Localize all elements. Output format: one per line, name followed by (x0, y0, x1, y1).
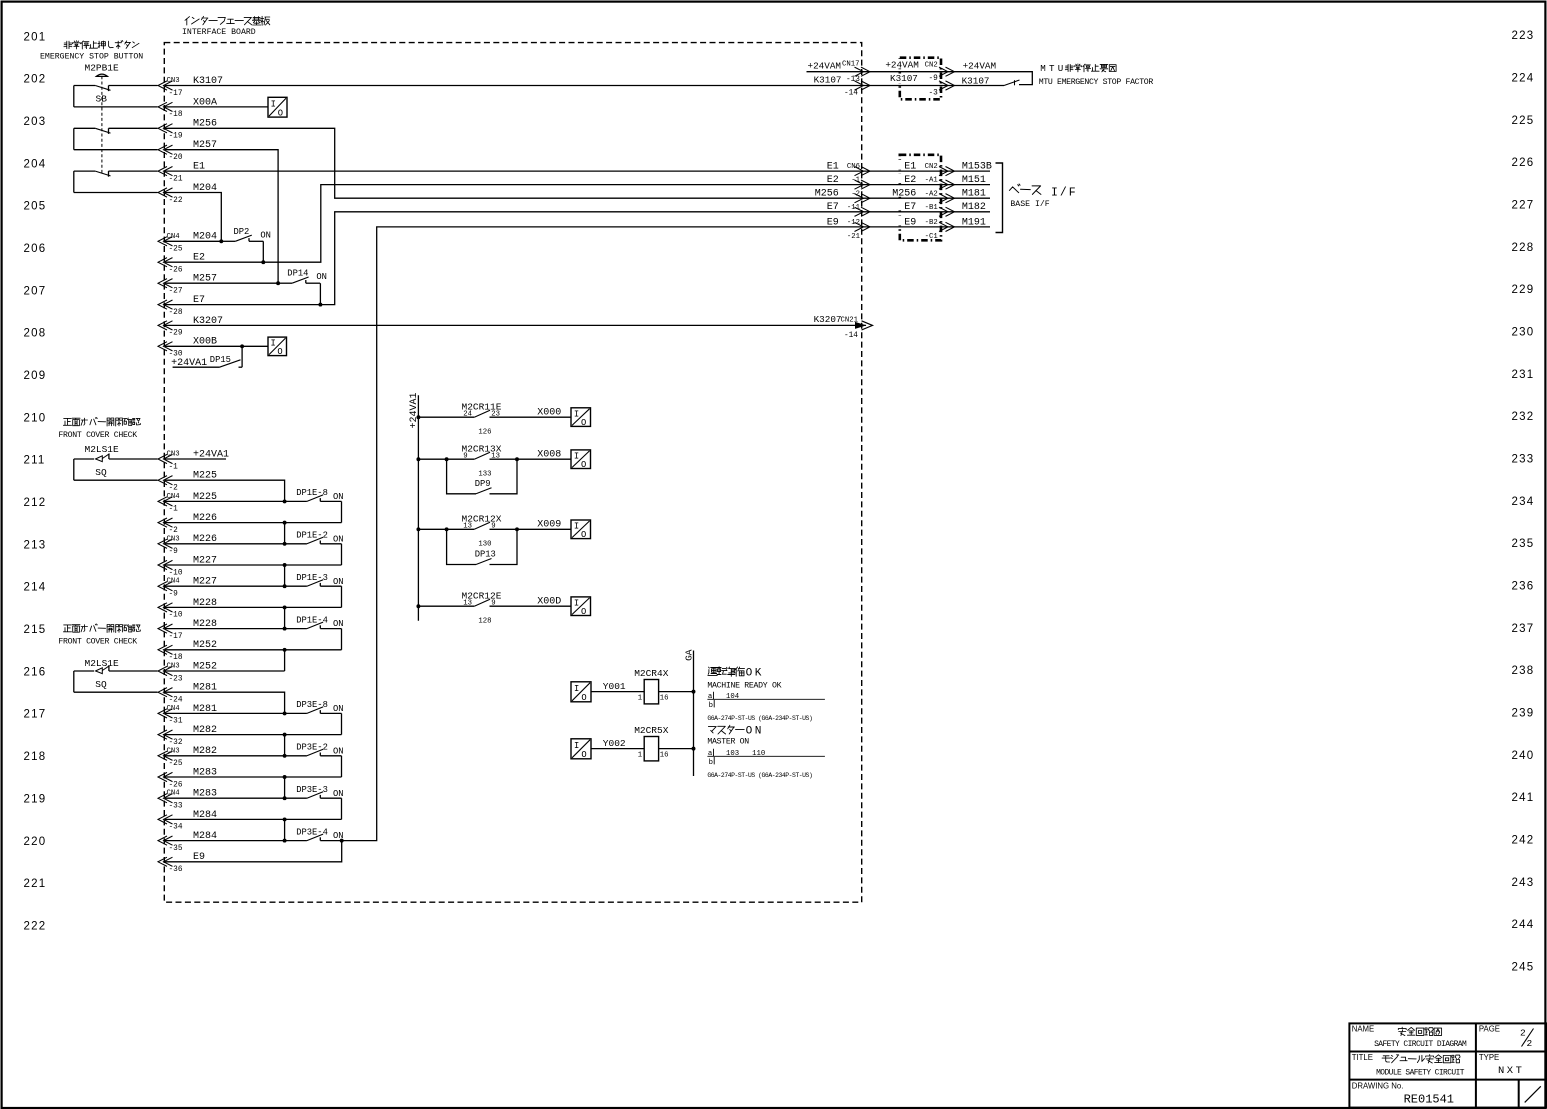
CN21 output arrow (855, 322, 867, 329)
wire through CN2 box E9 (866, 226, 990, 228)
svg-text:-10: -10 (169, 569, 183, 577)
label backplate (883, 59, 920, 69)
CN2 chevron K3107 out (939, 81, 955, 90)
connector CN3 pin -20 chevron (M257) (158, 145, 173, 154)
svg-text:-2: -2 (169, 527, 179, 535)
GA vertical rail (693, 651, 695, 777)
connector pin -23 chevron (M252) (158, 666, 173, 675)
wire M226 (165, 522, 342, 524)
svg-text:K: K (755, 667, 762, 679)
svg-text:+24VA1: +24VA1 (409, 392, 420, 428)
connector CN2 (top) dash-dot box (900, 58, 941, 100)
wire K3107 (row 202) full width (165, 85, 1004, 87)
svg-text:E2: E2 (827, 175, 839, 186)
svg-text:K3207: K3207 (814, 314, 842, 325)
connector pin -9 chevron (M227) (158, 582, 173, 591)
connector pin -1 chevron (+24VA1) (158, 454, 173, 463)
wire M227 (165, 564, 342, 566)
svg-text:218: 218 (24, 751, 47, 763)
svg-text:233: 233 (1512, 454, 1535, 466)
wire M252 CN3-23 (165, 670, 285, 672)
I/O box Y002 (571, 739, 591, 759)
junction M204/DP2 (219, 239, 223, 243)
wire X00A to I/O (165, 106, 268, 108)
svg-text:O: O (581, 530, 586, 540)
junction M257/DP14 (276, 281, 280, 285)
wire M282 (165, 734, 342, 736)
svg-text:-9: -9 (928, 75, 938, 83)
CN17 chevron K3107 (855, 81, 871, 90)
svg-text:-18: -18 (169, 654, 183, 662)
svg-text:-21: -21 (169, 175, 183, 183)
wire +24VAM through CN2 to MTU box (866, 72, 1032, 85)
connector pin -24 chevron (M281) (158, 688, 173, 697)
svg-text:I: I (271, 99, 276, 109)
svg-text:MODULE SAFETY CIRCUIT: MODULE SAFETY CIRCUIT (1376, 1068, 1465, 1077)
svg-text:2: 2 (1527, 1038, 1533, 1049)
svg-text:231: 231 (1512, 369, 1535, 381)
svg-text:203: 203 (24, 116, 47, 128)
svg-text:-9: -9 (169, 548, 179, 556)
svg-text:+24VAM: +24VAM (885, 60, 918, 71)
right margin line-number column 223-245 (1512, 30, 1535, 974)
svg-text:226: 226 (1512, 157, 1535, 169)
connector pin -1 chevron (M225) (158, 497, 173, 506)
relay contact M2CR12E (416, 604, 420, 608)
label backplate (890, 160, 918, 170)
svg-text:-10: -10 (169, 612, 183, 620)
svg-text:DP3E-3: DP3E-3 (296, 785, 328, 795)
junction M283 (283, 796, 287, 800)
svg-text:239: 239 (1512, 708, 1535, 720)
svg-text:ON: ON (333, 789, 344, 799)
junction M225 (283, 499, 287, 503)
svg-text:M2CR5X: M2CR5X (634, 725, 669, 736)
svg-text:NXT: NXT (1498, 1065, 1524, 1077)
svg-text:ON: ON (333, 704, 344, 714)
I/O box X00B (268, 337, 287, 356)
svg-text:+24VAM: +24VAM (808, 60, 841, 71)
wire M204: right then down to CN4 row (165, 193, 221, 242)
connector pin -35 chevron (M284) (158, 836, 173, 845)
I/O box X009 (571, 520, 591, 539)
junction M281 (283, 711, 287, 715)
svg-text:-1: -1 (169, 463, 179, 471)
relay contact M2CR13X (416, 457, 420, 461)
svg-text:CN3: CN3 (167, 451, 180, 459)
svg-text:-14: -14 (844, 332, 858, 340)
wire M226 with switch DP1E-2 (165, 543, 285, 545)
svg-text:CN2: CN2 (925, 62, 938, 70)
emergency stop SB NC contact 2 (73, 128, 75, 149)
label backplate (890, 201, 918, 211)
svg-text:9: 9 (491, 523, 495, 531)
svg-text:128: 128 (478, 618, 491, 626)
wire through CN2 box M256 (866, 197, 990, 199)
svg-text:-20: -20 (169, 154, 183, 162)
switch output drop to M228 (341, 586, 343, 607)
svg-text:-24: -24 (169, 697, 183, 705)
svg-text:ON: ON (316, 272, 327, 282)
front cover check label (Japanese) (63, 418, 71, 425)
connector CN4 pin -25 chevron (M204) (158, 237, 173, 246)
svg-text:-C1: -C1 (925, 233, 939, 241)
svg-text:-17: -17 (169, 90, 183, 98)
relay coil M2CR4X (644, 680, 658, 704)
svg-text:M2CR4X: M2CR4X (634, 668, 669, 679)
junction (283, 775, 287, 779)
svg-text:-28: -28 (169, 309, 183, 317)
wire E7: to riser then CN6 (165, 212, 866, 305)
svg-text:-B1: -B1 (925, 204, 939, 212)
connector pin -33 chevron (M283) (158, 794, 173, 803)
CN2 chevron +24VAM out (939, 67, 955, 76)
svg-text:213: 213 (24, 539, 47, 551)
left margin line-number column 201-222 (24, 31, 47, 932)
svg-text:O: O (746, 726, 753, 738)
svg-text:13: 13 (463, 523, 472, 531)
connector pin -34 chevron (M284) (158, 815, 173, 824)
svg-text:211: 211 (24, 455, 46, 467)
relay coil M2CR5X (644, 737, 658, 761)
svg-text:I: I (574, 522, 579, 532)
+24VA1 vertical supply rail (417, 395, 419, 621)
svg-text:9: 9 (491, 600, 495, 608)
emergency stop SB NC contact 3 (73, 171, 75, 192)
CN6 chevron M256 (855, 194, 871, 203)
svg-text:Y001: Y001 (603, 681, 626, 692)
svg-text:-27: -27 (169, 288, 183, 296)
svg-text:K3107: K3107 (890, 73, 918, 84)
switch DP15 (NO contact) feeding X00B (173, 366, 220, 368)
svg-text:I: I (574, 598, 579, 608)
svg-text:ON: ON (333, 534, 344, 544)
svg-text:EMERGENCY STOP BUTTON: EMERGENCY STOP BUTTON (40, 53, 143, 62)
I/O box X00A (268, 97, 287, 117)
svg-text:SAFETY CIRCUIT DIAGRAM: SAFETY CIRCUIT DIAGRAM (1374, 1040, 1467, 1049)
switch output drop to M283 (341, 756, 343, 777)
svg-text:M191: M191 (962, 217, 986, 228)
DP14 output down to E7 (319, 283, 321, 304)
svg-text:-36: -36 (169, 866, 183, 874)
pushbutton SB mushroom head symbol (96, 74, 107, 76)
MTU stop factor contact blade (1004, 80, 1020, 86)
svg-text:-34: -34 (169, 824, 183, 832)
connector CN4 pin -29 chevron (K3207) (158, 321, 173, 330)
relay contact M2CR12X (416, 527, 420, 531)
wire M282 with switch DP3E-2 (165, 755, 285, 757)
svg-text:ON: ON (333, 746, 344, 756)
svg-text:-32: -32 (169, 739, 183, 747)
svg-text:X008: X008 (537, 449, 561, 460)
limit switch SQ NC contact (73, 459, 75, 480)
front cover check label (Japanese) (63, 625, 71, 632)
svg-text:230: 230 (1512, 327, 1535, 339)
switch output drop to M282 (341, 713, 343, 734)
junction M227 (283, 584, 287, 588)
svg-text:O: O (581, 418, 586, 428)
svg-text:220: 220 (24, 836, 47, 848)
tie M252 down to CN3-23 (284, 650, 286, 671)
svg-text:FRONT COVER CHECK: FRONT COVER CHECK (58, 431, 137, 440)
connector pin -2 chevron (M226) (158, 518, 173, 527)
svg-text:-1: -1 (851, 177, 860, 185)
svg-text:-21: -21 (847, 233, 861, 241)
svg-text:I: I (574, 409, 579, 419)
junction (283, 521, 287, 525)
svg-text:a: a (708, 693, 713, 701)
svg-text:X000: X000 (537, 407, 561, 418)
svg-text:-25: -25 (169, 246, 183, 254)
wire M257 CN4 row (165, 282, 278, 284)
wire through CN2 box E7 (866, 211, 990, 213)
svg-text:DRAWING No.: DRAWING No. (1352, 1082, 1404, 1091)
wire X00B to I/O (165, 345, 268, 347)
module safety circuit (Japanese) (1382, 1056, 1390, 1062)
connector pin -26 chevron (M283) (158, 772, 173, 781)
svg-text:-A1: -A1 (925, 177, 939, 185)
svg-text:CN2: CN2 (925, 163, 938, 171)
connector CN3 pin -18 chevron (X00A) (158, 102, 173, 111)
DP9 parallel bypass switch (445, 457, 449, 461)
svg-text:236: 236 (1512, 581, 1535, 593)
svg-text:X009: X009 (537, 520, 561, 531)
svg-text:CN3: CN3 (167, 77, 180, 85)
svg-text:DP1E-8: DP1E-8 (296, 488, 328, 498)
svg-text:-22: -22 (169, 197, 183, 205)
junction M282 (283, 754, 287, 758)
svg-text:O: O (581, 460, 586, 470)
svg-text:208: 208 (24, 328, 47, 340)
connector CN4 pin -26 chevron (E2) (158, 258, 173, 267)
svg-text:201: 201 (24, 31, 47, 43)
svg-text:223: 223 (1512, 30, 1535, 42)
I/O box Y001 (571, 682, 591, 702)
svg-text:CN3: CN3 (167, 663, 180, 671)
svg-text:M256: M256 (815, 189, 839, 200)
wire E9 riser to DP3E-4 output (165, 841, 342, 862)
svg-text:237: 237 (1512, 623, 1535, 635)
relay contact M2CR11E (416, 415, 420, 419)
svg-text:-2: -2 (851, 190, 860, 198)
svg-text:23: 23 (491, 411, 500, 419)
svg-text:-B2: -B2 (925, 219, 938, 227)
wire M228 (165, 606, 342, 608)
svg-text:225: 225 (1512, 115, 1535, 127)
svg-text:244: 244 (1512, 919, 1535, 931)
tie down to next row (284, 523, 286, 544)
wire M252 (165, 649, 342, 651)
wire M228 with switch DP1E-4 (165, 628, 285, 630)
svg-text:I: I (574, 451, 579, 461)
svg-text:CN4: CN4 (167, 790, 181, 798)
svg-text:M256: M256 (892, 189, 916, 200)
svg-text:U: U (1058, 63, 1064, 74)
switch DP14 (NO contact) (278, 282, 292, 284)
switch output drop to M284 (341, 798, 343, 819)
svg-text:9: 9 (463, 453, 467, 461)
wire E1 straight to CN6 (165, 170, 866, 172)
+24VAM stub wire (left of CN17) (807, 71, 867, 73)
svg-text:204: 204 (24, 158, 47, 170)
svg-text:222: 222 (24, 920, 47, 932)
svg-text:CN4: CN4 (167, 493, 181, 501)
svg-text:M2LS1E: M2LS1E (85, 444, 120, 455)
svg-text:MTU EMERGENCY STOP FACTOR: MTU EMERGENCY STOP FACTOR (1039, 78, 1154, 87)
title block frame (1349, 1023, 1546, 1107)
svg-text:-19: -19 (169, 133, 183, 141)
svg-text:E1: E1 (904, 162, 916, 173)
junction M226 (283, 542, 287, 546)
svg-text:MACHINE READY OK: MACHINE READY OK (707, 682, 781, 691)
junction (283, 817, 287, 821)
svg-text:103: 103 (726, 750, 739, 758)
wire M284 (165, 818, 342, 820)
svg-text:2: 2 (1520, 1027, 1526, 1038)
svg-text:245: 245 (1512, 962, 1535, 974)
svg-text:I: I (574, 741, 579, 751)
svg-text:133: 133 (478, 471, 491, 479)
svg-text:242: 242 (1512, 835, 1535, 847)
svg-text:K3107: K3107 (814, 74, 842, 85)
DP2 output down to E2 (262, 241, 264, 262)
tie down to next row (284, 777, 286, 798)
svg-text:SQ: SQ (95, 467, 107, 478)
svg-text:-29: -29 (169, 330, 183, 338)
svg-text:232: 232 (1512, 411, 1535, 423)
junction (283, 733, 287, 737)
switch output drop to M226 (341, 501, 343, 522)
connector pin -10 chevron (M227) (158, 560, 173, 569)
tie down to next row (284, 607, 286, 628)
svg-text:E7: E7 (827, 202, 839, 213)
svg-text:214: 214 (24, 582, 47, 594)
svg-text:CN17: CN17 (842, 61, 860, 69)
svg-text:16: 16 (660, 751, 669, 759)
wire M225 with switch DP1E-8 (165, 500, 285, 502)
svg-text:243: 243 (1512, 877, 1535, 889)
svg-text:DP2: DP2 (234, 227, 250, 237)
svg-text:ON: ON (333, 492, 344, 502)
svg-text:209: 209 (24, 370, 47, 382)
svg-text:NAME: NAME (1352, 1024, 1375, 1033)
svg-text:G6A-274P-ST-US (G6A-234P-ST-US: G6A-274P-ST-US (G6A-234P-ST-US) (707, 772, 812, 779)
svg-text:TITLE: TITLE (1352, 1053, 1373, 1062)
svg-text:K3107: K3107 (962, 76, 990, 87)
svg-text:240: 240 (1512, 750, 1535, 762)
svg-text:217: 217 (24, 709, 47, 721)
svg-text:221: 221 (24, 878, 47, 890)
svg-text:G6A-274P-ST-US (G6A-234P-ST-US: G6A-274P-ST-US (G6A-234P-ST-US) (707, 715, 812, 722)
wire coil to GA rail (659, 748, 694, 750)
svg-text:FRONT COVER CHECK: FRONT COVER CHECK (58, 638, 137, 647)
svg-text:-31: -31 (169, 718, 183, 726)
svg-text:M182: M182 (962, 202, 986, 213)
junction M284 (283, 839, 287, 843)
connector pin -18 chevron (M252) (158, 645, 173, 654)
connector pin -31 chevron (M281) (158, 709, 173, 718)
svg-text:N: N (755, 726, 762, 738)
svg-text:224: 224 (1512, 72, 1535, 84)
svg-text:16: 16 (660, 694, 669, 702)
svg-text:MASTER ON: MASTER ON (707, 738, 749, 747)
emergency stop button label (Japanese) (64, 41, 72, 48)
svg-text:13: 13 (491, 453, 500, 461)
wire through CN2 box E1 (866, 170, 990, 172)
junction M228 (283, 627, 287, 631)
junction E9 (340, 839, 344, 843)
svg-text:ON: ON (260, 231, 271, 241)
base I/F bracket (996, 163, 1003, 233)
label backplate (890, 173, 918, 183)
svg-text:DP3E-2: DP3E-2 (296, 743, 328, 753)
svg-text:216: 216 (24, 666, 47, 678)
svg-text:ON: ON (333, 577, 344, 587)
svg-text:E9: E9 (904, 217, 916, 228)
svg-text:+24VAM: +24VAM (963, 60, 996, 71)
wire M284 with switch DP3E-4 (165, 840, 285, 842)
connector pin -2 chevron (M225) (158, 476, 173, 485)
DP3E-4 output to E9 riser (342, 227, 867, 841)
wire M227 with switch DP1E-3 (165, 585, 285, 587)
svg-text:PAGE: PAGE (1479, 1024, 1500, 1033)
wire M281 to drop (165, 692, 285, 713)
interface board label (Japanese) (185, 17, 190, 25)
svg-text:229: 229 (1512, 284, 1535, 296)
svg-text:INTERFACE BOARD: INTERFACE BOARD (182, 28, 256, 37)
svg-text:a: a (708, 750, 713, 758)
junction DP2/E2 (261, 260, 265, 264)
CN2 chevron out E9 (939, 222, 955, 231)
svg-text:1: 1 (638, 751, 643, 759)
svg-text:CN6: CN6 (847, 163, 860, 171)
svg-text:215: 215 (24, 624, 47, 636)
limit switch SQ NC contact (73, 671, 75, 692)
svg-text:238: 238 (1512, 665, 1535, 677)
svg-text:205: 205 (24, 201, 47, 213)
svg-text:234: 234 (1512, 496, 1535, 508)
svg-text:CN4: CN4 (167, 705, 181, 713)
CN6 chevron E1 (855, 167, 871, 176)
svg-text:110: 110 (752, 750, 765, 758)
svg-text:206: 206 (24, 243, 47, 255)
svg-text:DP9: DP9 (475, 479, 491, 489)
svg-text:E1: E1 (827, 162, 839, 173)
svg-text:I: I (271, 339, 276, 349)
svg-text:13: 13 (463, 600, 472, 608)
I/O box X000 (571, 408, 591, 427)
svg-text:-35: -35 (169, 845, 183, 853)
svg-text:235: 235 (1512, 538, 1535, 550)
wire M225 to drop (165, 480, 285, 501)
svg-text:104: 104 (726, 693, 740, 701)
connector CN3 pin -19 chevron (M256) (158, 124, 173, 133)
connector pin -10 chevron (M228) (158, 603, 173, 612)
svg-text:-2: -2 (169, 485, 179, 493)
svg-text:O: O (746, 667, 753, 679)
wire Y001 to coil (591, 691, 644, 693)
+24VA1 stub wire (CN3-1) (165, 458, 226, 460)
svg-text:CN3: CN3 (167, 535, 180, 543)
CN6 chevron E7 (855, 207, 871, 216)
wire M281 with switch DP3E-8 (165, 712, 285, 714)
svg-text:I: I (574, 684, 579, 694)
switch DP2 (NO contact) (221, 240, 235, 242)
svg-text:-1: -1 (169, 506, 179, 514)
base I/F label (Japanese) (1009, 184, 1020, 193)
svg-text:-12: -12 (847, 219, 860, 227)
CN2 chevron out M256 (939, 194, 955, 203)
